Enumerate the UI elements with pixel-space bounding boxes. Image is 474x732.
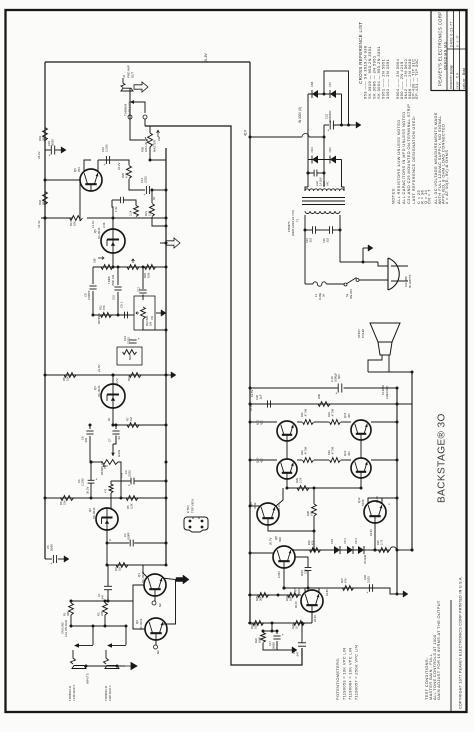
diode CR7: [330, 90, 336, 98]
svg-text:2.2/35: 2.2/35: [105, 144, 109, 152]
resistor R30 470: [310, 548, 321, 553]
node j37: [301, 622, 304, 625]
svg-text:470: 470: [105, 488, 108, 493]
transistor Q2 SK3919: [145, 618, 167, 640]
wire r22 top: [262, 631, 264, 633]
node q14 bus: [396, 421, 399, 424]
wire q3 e down: [106, 543, 108, 565]
svg-text:CW: CW: [157, 136, 161, 141]
diode CR4: [312, 156, 318, 164]
svg-text:SK-3046: SK-3046: [92, 507, 96, 519]
node j31: [116, 665, 119, 668]
node j5: [165, 266, 168, 269]
svg-text:R30: R30: [307, 540, 311, 545]
resistor R26 1K: [294, 621, 305, 626]
resistor R14 mid pot: [123, 350, 137, 355]
svg-text:+: +: [282, 633, 284, 637]
wire t1 pri left: [304, 215, 306, 284]
wire spkr right leg: [388, 355, 390, 372]
node grid tl: [249, 421, 252, 424]
node j7: [165, 374, 168, 377]
svg-text:NC: NC: [156, 650, 160, 654]
svg-text:MASTER: MASTER: [153, 140, 157, 152]
node j15: [249, 622, 252, 625]
resistor R21 2.2K: [150, 204, 155, 217]
svg-text:R26: R26: [141, 147, 145, 152]
wire c17 topstub: [276, 631, 278, 634]
capacitor C17 50/50: [273, 635, 280, 637]
wire q8 emitter lead: [291, 549, 294, 551]
node gnd tap: [362, 261, 365, 264]
svg-text:953: 953: [77, 167, 81, 172]
resistor R35 2.7K: [379, 548, 390, 553]
wire C4 bot lead: [90, 484, 92, 499]
wire base q1 link: [133, 585, 144, 601]
package E503 pin 1: [189, 520, 192, 523]
svg-text:CR 3: CR 3: [354, 538, 358, 544]
svg-text:C13: C13: [304, 569, 308, 574]
diode CR3: [358, 546, 364, 554]
capacitor C19b 39PF: [305, 567, 312, 569]
wire grid top rail: [250, 403, 412, 405]
node j19: [374, 549, 377, 552]
svg-text:IN 4000 (4): IN 4000 (4): [298, 107, 302, 123]
wire c22 stub: [308, 172, 314, 174]
wire R2 top: [104, 601, 106, 603]
svg-text:T1: T1: [296, 218, 300, 222]
svg-text:3.7V: 3.7V: [115, 378, 119, 384]
package E503 pin 3: [189, 526, 192, 529]
wire q3 e row b: [134, 542, 166, 544]
arrow J2 contact: [107, 643, 112, 648]
wire spkr row: [368, 371, 412, 373]
svg-text:8 - 1 - 77: 8 - 1 - 77: [456, 35, 460, 47]
svg-text:R26: R26: [291, 624, 295, 629]
svg-text:# 128 JACK ①: # 128 JACK ①: [72, 684, 76, 701]
wire c20 right: [344, 387, 397, 389]
svg-text:COPYRIGHT 1977 PEAVEY ELECTR: COPYRIGHT 1977 PEAVEY ELECTRONICS CORP P…: [459, 576, 463, 709]
wire q8 base row: [284, 587, 375, 589]
svg-text:3A: 3A: [322, 294, 326, 297]
node j3: [165, 217, 168, 220]
resistor R20 4.7K: [127, 166, 132, 179]
wire master wiper: [130, 91, 145, 140]
svg-text:C24: C24: [305, 238, 309, 243]
svg-text:470: 470: [311, 540, 315, 545]
svg-text:CW: CW: [151, 315, 154, 320]
wire C8 drop: [92, 267, 94, 284]
wire rect right drop: [341, 94, 343, 125]
svg-text:3391 —— 2N 3391: 3391 —— 2N 3391: [385, 59, 390, 99]
node j11: [112, 424, 115, 427]
svg-text:INPUTS: INPUTS: [86, 673, 90, 684]
wire jack node row: [71, 625, 126, 627]
node j24: [70, 600, 73, 603]
capacitor C3 22/25: [130, 478, 132, 485]
transformer core line 3: [302, 204, 345, 206]
capacitor C19 50/50: [50, 146, 52, 155]
jack J3 lever: [121, 78, 125, 88]
svg-text:.022: .022: [326, 237, 330, 243]
arrow CW master: [157, 130, 160, 137]
svg-text:+: +: [366, 591, 368, 595]
svg-text:6.8K: 6.8K: [147, 272, 151, 278]
wire mid wiper gnd: [131, 314, 134, 316]
ground feedback: [288, 649, 292, 651]
svg-text:R19: R19: [38, 136, 42, 141]
wire rail to C5: [45, 558, 52, 560]
svg-text:TREB: TREB: [107, 276, 111, 284]
svg-text:POTENTIOMETERS:: POTENTIOMETERS:: [335, 657, 340, 700]
transistor Q4 SK3046: [101, 384, 125, 408]
svg-text:431: 431: [347, 451, 351, 456]
wire rect top loop: [324, 71, 349, 125]
wire C13a left: [112, 199, 121, 201]
svg-text:R18: R18: [38, 200, 42, 205]
node q10 left: [249, 505, 252, 508]
wire c17 down: [276, 641, 278, 650]
ground R9 row: [166, 374, 171, 376]
svg-text:C25: C25: [322, 238, 326, 243]
plug prong 1: [391, 265, 408, 267]
svg-text:71190057 = 250K VPC LIN: 71190057 = 250K VPC LIN: [354, 645, 359, 700]
connector AC plug: [388, 258, 399, 290]
svg-text:1.4V: 1.4V: [114, 206, 118, 212]
svg-text:OUT: OUT: [131, 72, 135, 78]
svg-text:CR7: CR7: [328, 81, 332, 87]
svg-text:LUG ON JACK: LUG ON JACK: [64, 620, 68, 637]
svg-text:R33: R33: [327, 450, 331, 455]
svg-text:C19: C19: [47, 141, 51, 146]
svg-text:C2: C2: [123, 533, 127, 537]
wire rect center drop: [323, 125, 325, 160]
wire q8 collector to bus: [250, 552, 273, 554]
svg-text:560: 560: [42, 136, 46, 141]
svg-text:R24: R24: [285, 596, 289, 601]
wire input node to bases: [108, 600, 133, 602]
wire q13 base down: [360, 477, 362, 488]
node j4: [165, 225, 168, 228]
wire bus right col2: [411, 372, 413, 550]
terminal NC Q1: [152, 601, 156, 605]
svg-text:20.4V: 20.4V: [313, 615, 317, 622]
wire Q3 top lead b: [110, 493, 112, 509]
svg-text:50/50: 50/50: [51, 139, 55, 146]
svg-text:50V: 50V: [337, 374, 341, 379]
node j35: [271, 630, 274, 633]
wire R20 down: [129, 179, 145, 190]
resistor R17 10K: [70, 216, 83, 221]
node pri right cap: [339, 229, 342, 232]
svg-text:19.8V: 19.8V: [325, 589, 329, 596]
wire C13a drop: [112, 200, 113, 218]
wire Q2 base stub: [155, 640, 157, 645]
svg-text:R20: R20: [121, 173, 125, 178]
wire r31 to r34: [314, 421, 329, 423]
svg-text:+: +: [335, 392, 337, 396]
arrow input ground: [125, 663, 137, 670]
svg-text:FUSE: FUSE: [318, 293, 322, 300]
svg-text:470: 470: [344, 578, 348, 583]
wire q9 base lead: [268, 524, 314, 531]
svg-text:2200/50V: 2200/50V: [328, 110, 332, 122]
capacitor C24 .022: [312, 226, 314, 234]
wire C8 down: [92, 291, 94, 315]
resistor R16 6.8K: [145, 265, 156, 270]
svg-text:C18: C18: [363, 575, 367, 580]
svg-text:680: 680: [42, 200, 46, 205]
svg-text:71190064 = 10K VPC LIN: 71190064 = 10K VPC LIN: [348, 648, 353, 700]
svg-text:0: 0: [108, 539, 112, 541]
capacitor C4 2.2/35: [88, 479, 95, 481]
node C12 top: [142, 266, 145, 269]
wire treble row: [93, 266, 166, 268]
node j6: [165, 329, 168, 332]
svg-text:C6: C6: [81, 436, 85, 440]
resistor R2 22K: [103, 603, 108, 615]
wire C12 down: [142, 295, 144, 301]
transistor Q10 EP430: [277, 459, 297, 479]
node pri left cap: [304, 229, 307, 232]
resistor R13 treble a: [101, 265, 113, 270]
jack J1 sleeve pad: [72, 666, 86, 669]
svg-text:E 503: E 503: [186, 505, 190, 513]
capacitor C7 .03: [112, 430, 119, 432]
svg-text:41V: 41V: [244, 129, 248, 136]
svg-text:R16: R16: [143, 273, 147, 278]
wire 41V feed to rectifier: [250, 136, 302, 138]
svg-text:+: +: [50, 562, 52, 566]
wire Q5 source to treble: [112, 253, 114, 267]
svg-text:T1456004 J2: T1456004 J2: [104, 685, 108, 701]
wire r28 col: [313, 488, 315, 504]
svg-text:20.7V: 20.7V: [269, 538, 273, 545]
wire sec left lead: [307, 160, 309, 188]
svg-text:CR 2: CR 2: [343, 538, 347, 544]
svg-text:ON-OFF: ON-OFF: [349, 288, 353, 299]
wire q12 lead a: [368, 498, 397, 504]
capacitor C9 .1: [124, 312, 126, 319]
node q11 left: [249, 459, 252, 462]
resistor R25 56K: [258, 593, 269, 598]
wire sec right lead: [341, 160, 343, 188]
resistor R1 33K: [69, 603, 74, 615]
wire r33 to q13: [341, 459, 351, 461]
jack J1 contact bracket: [78, 645, 93, 647]
transformer T1 secondary: [305, 189, 344, 191]
svg-text:19.5V: 19.5V: [250, 390, 254, 397]
transformer core line 2: [302, 200, 345, 202]
wire q3 e row: [107, 542, 129, 544]
arrow CW treble: [98, 257, 104, 260]
node bus arrow: [165, 242, 168, 245]
wire t1 sec ends: [305, 187, 308, 191]
node j22: [411, 549, 414, 552]
svg-text:GAIN ADJUST FOR 10.9VRMS AT: GAIN ADJUST FOR 10.9VRMS AT THE OUTPUT: [436, 600, 441, 700]
svg-text:C7: C7: [108, 438, 112, 442]
svg-text:CR5: CR5: [328, 147, 332, 153]
wiper master pot: [145, 137, 148, 143]
svg-text:CR1: CR1: [330, 538, 334, 544]
svg-text:2.2K: 2.2K: [129, 210, 133, 216]
resistor R15 2.2K: [134, 206, 139, 217]
node c23 junction b: [347, 124, 350, 127]
wire q12 base: [374, 523, 376, 550]
wire master pot top: [145, 126, 150, 133]
capacitor C14 22/25: [145, 186, 147, 194]
svg-text:LIN: LIN: [149, 322, 153, 326]
terminal NC Q2: [154, 645, 158, 649]
wire C1 top: [107, 565, 109, 586]
svg-text:# 12R JACK: # 12R JACK: [128, 101, 132, 116]
svg-text:C8: C8: [84, 293, 88, 297]
svg-text:CR = 7: CR = 7: [427, 189, 432, 204]
wire tone bus: [165, 148, 167, 565]
wire B+ top rail: [45, 61, 250, 63]
title block divider 3: [459, 11, 461, 91]
transistor Q7 3904: [301, 590, 323, 612]
svg-text:R2: R2: [97, 612, 101, 616]
wire R8 row: [45, 374, 166, 376]
wire c25 l: [322, 229, 329, 231]
wire J1 bracket drop: [92, 626, 94, 645]
svg-text:C15: C15: [101, 147, 105, 152]
svg-text:EP-431 — TIP 30C: EP-431 — TIP 30C: [414, 59, 419, 100]
svg-text:50 WATTS: 50 WATTS: [408, 275, 412, 288]
node j30: [85, 665, 88, 668]
svg-text:10K: 10K: [289, 596, 293, 601]
node j0: [44, 179, 47, 182]
svg-text:2.2K: 2.2K: [299, 477, 303, 483]
node q8 bus2: [249, 552, 252, 555]
node grid right: [396, 403, 399, 406]
wire r28 bot: [313, 516, 315, 550]
wire J3 contact b stem: [144, 119, 146, 126]
jack J1 tip lever: [71, 650, 76, 664]
wire c18 to gnd: [373, 588, 397, 594]
wire c25 r: [333, 229, 340, 231]
svg-text:431: 431: [347, 413, 351, 418]
switch S1 contact a: [344, 283, 347, 286]
svg-text:R36: R36: [317, 394, 321, 399]
wire r29 row: [287, 487, 361, 489]
svg-text:0V: 0V: [107, 418, 111, 421]
svg-text:+: +: [95, 477, 97, 481]
node j34: [151, 189, 154, 192]
node j25: [104, 600, 107, 603]
capacitor C18 22/25: [368, 584, 370, 592]
svg-text:SK-3919: SK-3919: [139, 618, 143, 630]
svg-text:CR6: CR6: [310, 81, 314, 87]
node j18: [307, 172, 310, 175]
svg-text:C4: C4: [77, 479, 81, 483]
diode CR5: [330, 156, 336, 164]
wire master to J3: [129, 88, 131, 91]
resistor R36 top: [318, 402, 330, 407]
node q12 base row: [374, 549, 377, 552]
svg-text:C3: C3: [124, 470, 128, 474]
node j10: [112, 374, 115, 377]
wire R3 row: [107, 564, 166, 566]
svg-text:39PF: 39PF: [300, 569, 304, 576]
potentiometer R26 master: [148, 133, 153, 147]
resistor R18 680: [43, 192, 48, 205]
transistor Q8 690: [273, 546, 295, 568]
svg-text:NOTES:: NOTES:: [391, 187, 396, 204]
package E503 pin 2: [201, 520, 204, 523]
jack J2 sleeve pad: [105, 666, 119, 669]
wire c16 top: [301, 623, 303, 643]
capacitor C12 .05: [139, 289, 146, 291]
svg-text:.47 5W: .47 5W: [304, 408, 308, 417]
svg-text:R7: R7: [126, 417, 130, 421]
svg-text:10K: 10K: [66, 376, 70, 381]
wire q8 base down: [283, 568, 285, 588]
svg-text:56K: 56K: [259, 596, 263, 601]
svg-text:4.7K: 4.7K: [125, 172, 129, 178]
wire rect row2: [308, 159, 342, 161]
capacitor C6 .002: [86, 430, 93, 432]
svg-text:40VRMS: 40VRMS: [97, 313, 101, 324]
transistor Q11 EP430: [277, 421, 297, 441]
svg-text:3.3K: 3.3K: [130, 503, 134, 509]
wire C12 drop: [142, 267, 144, 289]
svg-text:.022: .022: [309, 237, 313, 243]
wire Q4 source row: [113, 424, 166, 426]
wire r32 to r33: [314, 459, 329, 461]
package E503 tab a: [192, 517, 194, 519]
node input node: [107, 600, 110, 603]
svg-text:4.04V: 4.04V: [277, 571, 281, 578]
svg-text:GAIN: GAIN: [117, 450, 121, 457]
wire switch to plug: [359, 279, 388, 281]
svg-text:GROUND: GROUND: [61, 622, 65, 634]
svg-text:2.2/35: 2.2/35: [81, 478, 85, 486]
svg-text:50/50: 50/50: [272, 642, 276, 649]
svg-text:C9 .1: C9 .1: [120, 301, 124, 308]
title block box: [431, 11, 466, 91]
wire Q5 drain: [112, 218, 114, 229]
svg-text:.1µF: .1µF: [259, 394, 263, 400]
svg-text:22/25: 22/25: [128, 470, 132, 477]
wire t1 pri right to plug: [340, 261, 378, 263]
node mid row junction: [117, 314, 120, 317]
wire q14 base down: [360, 440, 362, 458]
wire input node row: [71, 600, 108, 602]
speaker cone: [370, 323, 400, 342]
title block divider 2: [453, 11, 455, 91]
wire c13b bot: [307, 571, 309, 588]
arrow CW gain: [103, 465, 108, 467]
node q13 row488: [360, 487, 363, 490]
svg-text:MID: MID: [128, 355, 132, 360]
ground C18: [397, 593, 403, 595]
node C10 top: [117, 266, 120, 269]
capacitor C2 100PF: [129, 540, 131, 547]
capacitor C25 .022: [329, 226, 331, 234]
wire Q6 emitter to R21: [151, 190, 153, 203]
svg-text:R32: R32: [300, 450, 304, 455]
svg-text:.47 5W: .47 5W: [304, 446, 308, 455]
transistor Q14 EP431: [351, 420, 371, 440]
wire C6 top lead: [89, 425, 91, 429]
node r3 bus: [165, 564, 168, 567]
resistor R31 .47: [303, 420, 314, 425]
svg-text:CW: CW: [93, 258, 97, 263]
node q3 e: [106, 542, 109, 545]
svg-text:22/25: 22/25: [367, 576, 371, 583]
node q13 bus: [396, 459, 399, 462]
